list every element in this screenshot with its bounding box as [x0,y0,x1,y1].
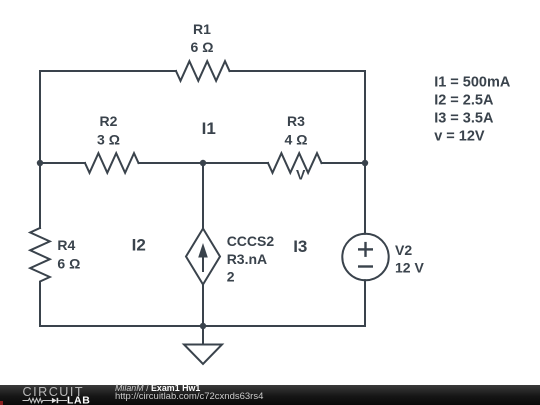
wire left vertical lower [39,286,41,326]
node dot right-middle [362,160,368,166]
junction node dots [37,160,368,329]
node dot left-middle [37,160,43,166]
svg-text:v = 12V: v = 12V [434,129,485,145]
svg-text:I3: I3 [293,237,307,256]
svg-text:LAB: LAB [67,394,90,405]
resistor R1 [176,61,230,81]
wire top from left corner to R1 [40,70,176,72]
resistor R3 [268,153,322,173]
svg-text:R2: R2 [100,113,118,129]
ground symbol [184,345,222,365]
ground stub wire [202,326,204,345]
logo resistor squiggle [23,398,52,402]
footer credit line [115,383,200,393]
svg-text:12 V: 12 V [395,260,424,276]
svg-text:I1 = 500mA: I1 = 500mA [434,75,511,91]
footer url line [115,392,263,402]
svg-text:V: V [296,167,306,183]
svg-text:I3 = 3.5A: I3 = 3.5A [434,111,494,127]
wire CCCS2 to bottom [202,285,204,327]
svg-text:V2: V2 [395,242,412,258]
svg-text:R4: R4 [57,237,75,253]
wire middle left to R2 [40,162,85,164]
wire left vertical upper [39,71,41,228]
CircuitLab logo [0,383,110,405]
wire right vertical upper [364,71,366,234]
wire top from R1 to right corner [230,70,366,72]
svg-text:3 Ω: 3 Ω [97,131,120,147]
V2 minus sign [358,265,373,267]
wire middle R2 to R3 [139,162,269,164]
CCCS2 arrow [198,243,208,272]
svg-text:6 Ω: 6 Ω [191,39,214,55]
logo diode symbol [52,398,57,403]
footer red accent [0,401,3,405]
V2 plus sign [358,242,373,267]
voltage source V2 [342,234,388,280]
svg-text:R3.nA: R3.nA [227,251,267,267]
svg-text:I1: I1 [202,119,216,138]
svg-text:I2 = 2.5A: I2 = 2.5A [434,93,494,109]
CCCS2 diamond [186,229,220,285]
wire middle R3 to right [322,162,366,164]
wire node A down to CCCS2 [202,163,204,229]
svg-text:CCCS2: CCCS2 [227,233,275,249]
wire right vertical lower [364,280,366,326]
svg-text:I2: I2 [132,236,146,255]
resistor R4 [30,228,50,286]
svg-text:4 Ω: 4 Ω [285,131,308,147]
resistor R2 [85,153,139,173]
svg-text:2: 2 [227,269,235,285]
wire bottom [40,325,365,327]
node dot center-middle [200,160,206,166]
node dot bottom [200,323,206,329]
footer bar [0,385,540,405]
svg-text:6 Ω: 6 Ω [57,256,80,272]
svg-text:R1: R1 [193,21,211,37]
svg-text:R3: R3 [287,113,305,129]
